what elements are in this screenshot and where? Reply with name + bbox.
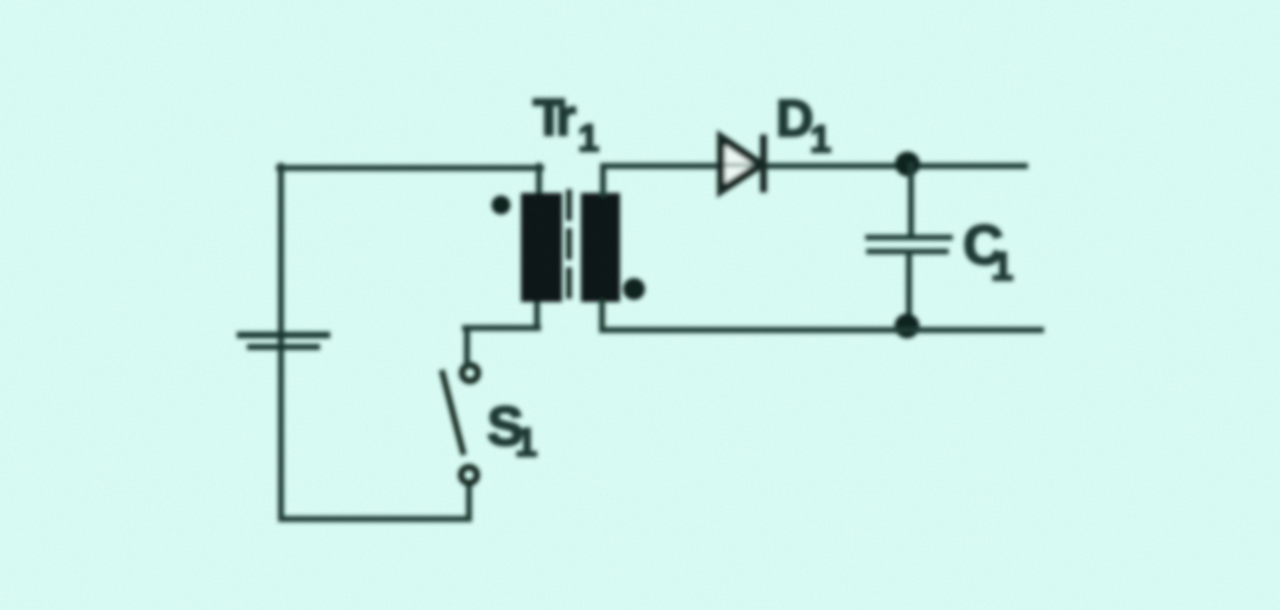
node junction top (diode/capacitor) (895, 152, 920, 177)
wire primary top stub (536, 166, 542, 194)
transformer Tr1 core (dashed) (566, 192, 572, 304)
capacitor C1 (868, 238, 950, 252)
label Tr1 (533, 89, 599, 160)
node junction bottom (capacitor/rail) (895, 314, 920, 339)
wire capacitor bottom lead (906, 253, 912, 326)
wire secondary top stub (600, 166, 606, 194)
battery B1 (240, 335, 327, 347)
wire left vertical (battery branch) (278, 166, 284, 519)
transformer Tr1 polarity dot (primary side) (492, 196, 511, 215)
transformer Tr1 secondary winding (581, 193, 620, 302)
wire primary bottom stub (534, 302, 540, 328)
label C1 (963, 213, 1013, 289)
transformer Tr1 primary winding (521, 193, 562, 302)
wire top-left rail (279, 165, 541, 171)
wire capacitor top lead (908, 165, 914, 234)
wire top-right rail (603, 163, 1025, 169)
wire jog (switch to transformer primary) (465, 325, 538, 331)
wire bottom-right rail (602, 327, 1041, 333)
diode D1 (721, 138, 764, 191)
label S1 (487, 395, 537, 465)
label D1 (776, 90, 831, 161)
wire switch bottom stub (466, 483, 472, 517)
switch S1 (443, 365, 479, 483)
wire secondary bottom stub (599, 302, 605, 330)
transformer Tr1 polarity dot (secondary side) (623, 278, 645, 300)
wire bottom rail (battery to switch) (281, 516, 469, 522)
wire switch top stub (464, 330, 470, 363)
